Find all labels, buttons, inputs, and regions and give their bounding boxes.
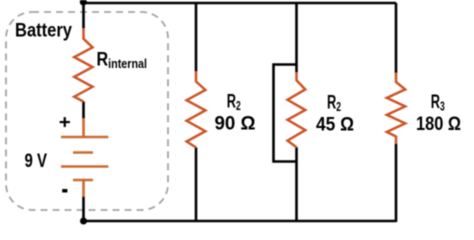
svg-text:Battery: Battery bbox=[15, 20, 72, 42]
svg-text:R2: R2 bbox=[227, 91, 241, 114]
svg-text:45 Ω: 45 Ω bbox=[316, 114, 354, 136]
svg-text:Rinternal: Rinternal bbox=[97, 49, 148, 72]
svg-text:R3: R3 bbox=[431, 91, 445, 114]
svg-text:180 Ω: 180 Ω bbox=[416, 113, 461, 135]
svg-text:+: + bbox=[59, 112, 71, 134]
svg-text:90 Ω: 90 Ω bbox=[215, 113, 256, 135]
svg-text:R2: R2 bbox=[327, 92, 341, 115]
svg-text:9 V: 9 V bbox=[25, 150, 48, 172]
